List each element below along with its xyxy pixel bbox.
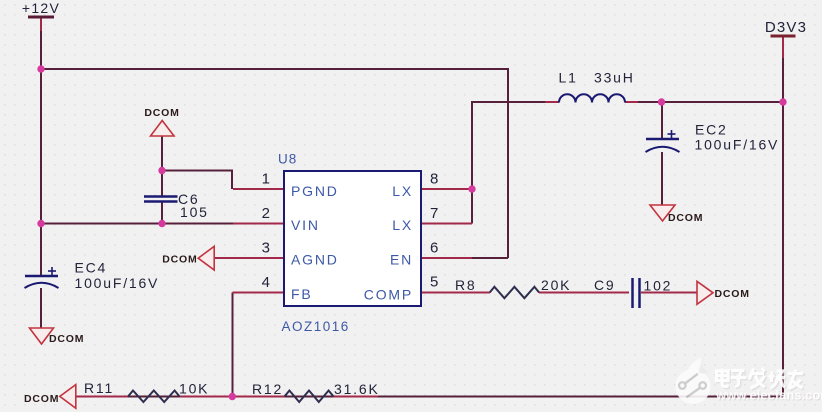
svg-text:31.6K: 31.6K — [334, 381, 380, 397]
svg-text:4: 4 — [262, 274, 270, 291]
svg-text:R12: R12 — [252, 381, 283, 397]
svg-text:R8: R8 — [455, 277, 477, 293]
svg-text:EN: EN — [390, 252, 413, 268]
svg-text:AOZ1016: AOZ1016 — [282, 319, 350, 334]
svg-text:6: 6 — [430, 240, 438, 257]
svg-text:1: 1 — [262, 171, 270, 188]
svg-text:DCOM: DCOM — [24, 393, 59, 405]
svg-text:100uF/16V: 100uF/16V — [695, 137, 780, 153]
svg-text:EC2: EC2 — [695, 122, 728, 138]
svg-text:VIN: VIN — [291, 217, 320, 233]
svg-text:R11: R11 — [84, 380, 114, 396]
svg-text:100uF/16V: 100uF/16V — [75, 275, 160, 291]
svg-text:PGND: PGND — [291, 183, 339, 199]
svg-text:C9: C9 — [594, 277, 616, 293]
svg-text:DCOM: DCOM — [715, 288, 750, 300]
svg-text:www.elecfans.com: www.elecfans.com — [715, 388, 822, 403]
svg-text:3: 3 — [262, 240, 270, 257]
svg-text:DCOM: DCOM — [49, 333, 84, 345]
svg-text:LX: LX — [392, 183, 413, 199]
svg-text:LX: LX — [392, 217, 413, 233]
svg-text:FB: FB — [291, 286, 313, 302]
svg-text:105: 105 — [180, 204, 209, 220]
svg-text:DCOM: DCOM — [162, 254, 197, 266]
svg-text:DCOM: DCOM — [668, 212, 703, 224]
svg-text:7: 7 — [430, 205, 438, 222]
svg-text:L1: L1 — [559, 70, 578, 86]
svg-text:10K: 10K — [179, 381, 209, 397]
svg-text:20K: 20K — [541, 277, 571, 293]
svg-text:33uH: 33uH — [594, 70, 635, 86]
svg-text:U8: U8 — [278, 152, 297, 167]
svg-text:AGND: AGND — [291, 252, 339, 268]
svg-text:DCOM: DCOM — [144, 107, 179, 119]
svg-text:8: 8 — [430, 171, 438, 188]
svg-text:+12V: +12V — [22, 0, 60, 16]
svg-text:EC4: EC4 — [75, 260, 108, 276]
svg-text:2: 2 — [262, 205, 270, 222]
svg-text:102: 102 — [644, 278, 673, 294]
svg-text:D3V3: D3V3 — [765, 19, 807, 36]
svg-text:5: 5 — [430, 274, 438, 291]
svg-text:COMP: COMP — [364, 287, 413, 303]
